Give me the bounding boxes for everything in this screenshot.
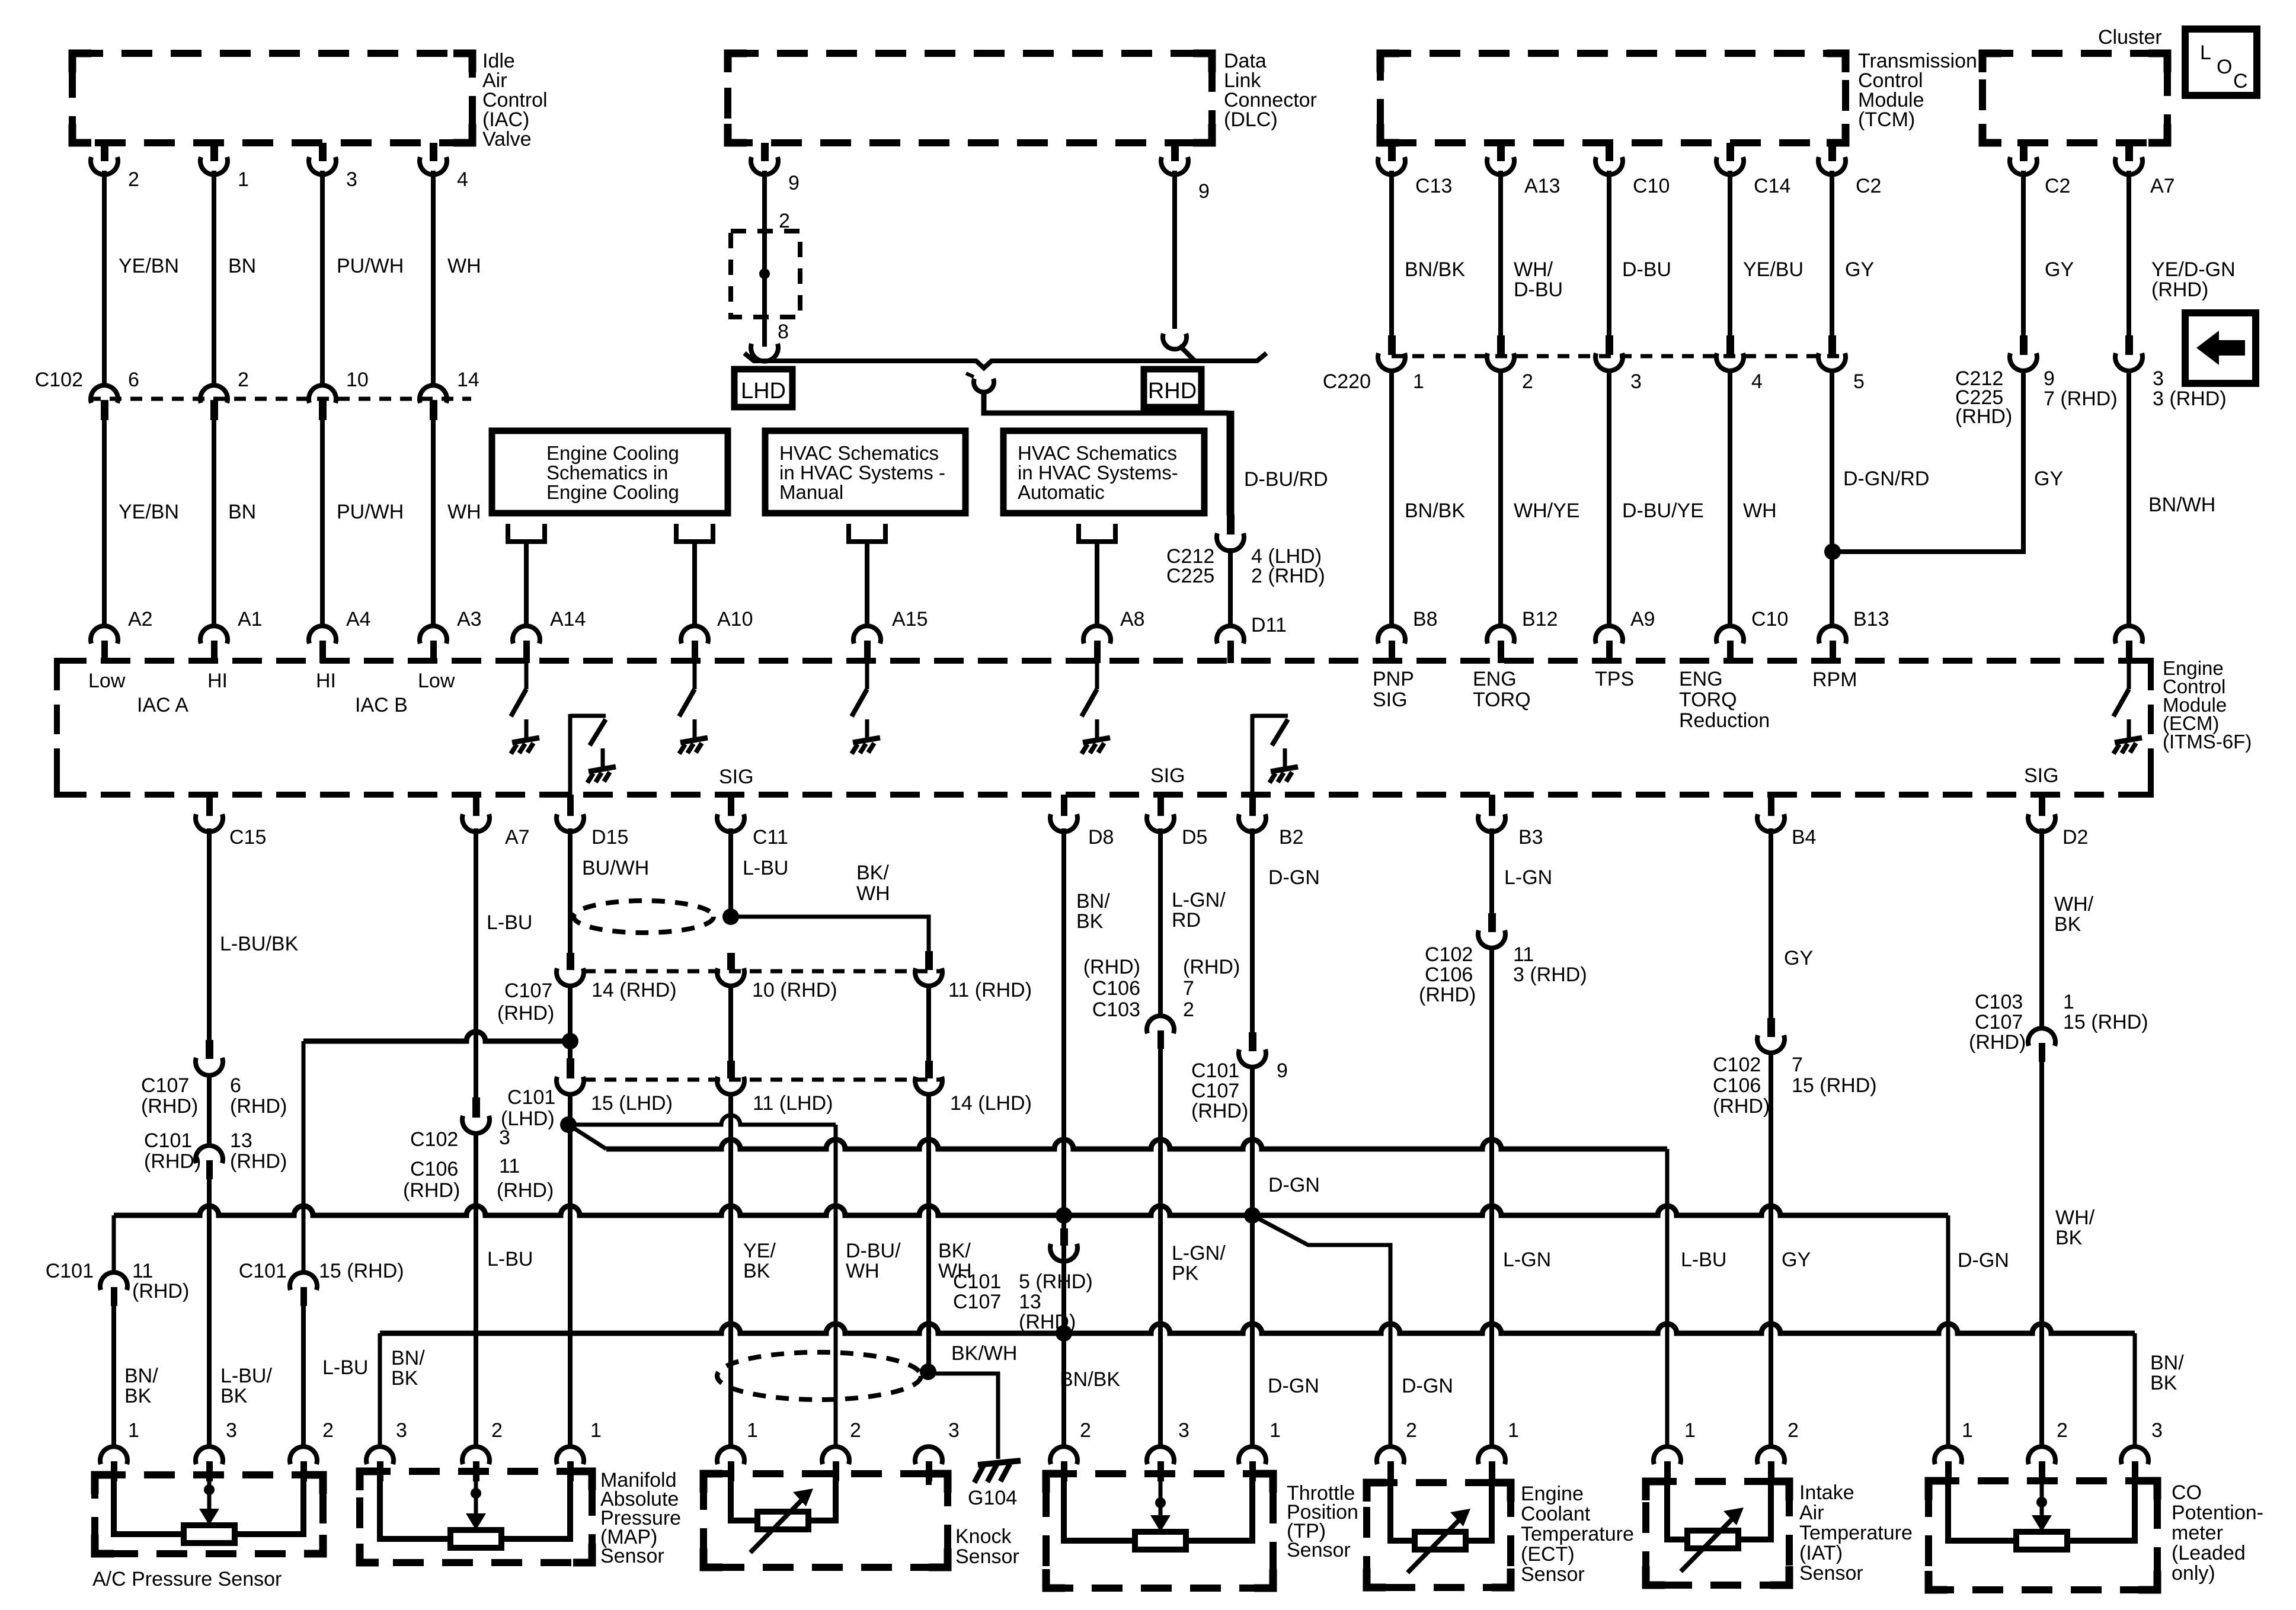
- svg-text:GY: GY: [2034, 468, 2063, 490]
- svg-text:A4: A4: [346, 608, 371, 630]
- svg-text:SIG: SIG: [1373, 689, 1408, 711]
- svg-text:Engine Cooling: Engine Cooling: [546, 481, 679, 503]
- LHD/RHD selection brace: [744, 353, 1267, 368]
- svg-text:L-BU: L-BU: [1681, 1249, 1726, 1271]
- TCM pin C2 connector: [1828, 143, 1836, 161]
- svg-text:(LHD): (LHD): [501, 1108, 555, 1130]
- svg-text:BK: BK: [391, 1367, 418, 1390]
- svg-text:GY: GY: [1845, 258, 1874, 281]
- wire YE/BN C102 to ECM: [102, 419, 107, 627]
- svg-text:YE/D-GN: YE/D-GN: [2151, 258, 2236, 281]
- svg-text:11: 11: [1513, 943, 1534, 966]
- wire D5 L-GN/RD: [1158, 828, 1163, 1017]
- svg-text:A9: A9: [1630, 608, 1655, 630]
- wire D8 to TP pin 2: [1061, 1333, 1066, 1449]
- wire B3 L-GN: [1489, 828, 1494, 913]
- IAC pin 2 connector: [101, 143, 108, 161]
- IAT sensor box: [1646, 1481, 1789, 1585]
- svg-text:A7: A7: [2150, 175, 2175, 197]
- svg-text:(RHD): (RHD): [1419, 984, 1476, 1006]
- DLC pin 9 left connector: [761, 143, 769, 161]
- knock sensor internal wiring: [731, 1474, 757, 1521]
- ECM top pin connector at x=176: [91, 626, 118, 644]
- knock sensor box: [703, 1474, 948, 1567]
- C101-LHD-row connector on D15 wire: [567, 1058, 574, 1078]
- svg-text:3: 3: [396, 1419, 407, 1442]
- connector cup under brace: [974, 379, 994, 392]
- svg-text:1: 1: [590, 1419, 602, 1442]
- svg-text:only): only): [2172, 1562, 2215, 1585]
- svg-text:YE/: YE/: [743, 1240, 776, 1262]
- svg-text:3: 3: [226, 1419, 237, 1442]
- svg-text:G104: G104: [968, 1487, 1017, 1509]
- svg-text:14: 14: [457, 369, 479, 391]
- junction dot D15 line1898: [560, 1116, 577, 1133]
- svg-text:(ITMS-6F): (ITMS-6F): [2163, 731, 2252, 753]
- svg-text:C15: C15: [229, 826, 266, 849]
- svg-text:(ECT): (ECT): [1521, 1543, 1575, 1566]
- connector C212/C225 on D-BU/RD wire: [1227, 514, 1235, 534]
- TP sensor resistor: [1135, 1532, 1186, 1550]
- ECM top pin connector at x=731: [420, 626, 447, 644]
- svg-text:9: 9: [1277, 1060, 1288, 1082]
- svg-text:BN/: BN/: [124, 1365, 158, 1387]
- wire bracket to ECM at x=1172: [692, 542, 697, 627]
- svg-text:Valve: Valve: [482, 128, 532, 151]
- svg-text:9: 9: [2044, 367, 2055, 390]
- svg-text:D-BU/RD: D-BU/RD: [1244, 468, 1328, 491]
- svg-text:C102: C102: [35, 369, 83, 391]
- sensor pin 3 connector at x=1958: [1147, 1446, 1174, 1464]
- A/C sensor resistor: [184, 1525, 235, 1543]
- ECM bottom pin C11 connector: [728, 795, 734, 816]
- svg-text:BN: BN: [228, 501, 256, 523]
- svg-text:BK/WH: BK/WH: [951, 1342, 1017, 1365]
- ECM bottom pin A7 connector: [473, 795, 479, 816]
- svg-text:Reduction: Reduction: [1679, 709, 1770, 732]
- ECM top pin connector at x=2076: [1217, 626, 1244, 644]
- C220 connector pin 4: [1726, 335, 1734, 355]
- wire TCM A13 to C220: [1498, 171, 1503, 335]
- IAC valve box (Idle Air Control): [72, 53, 472, 143]
- switch and ground inside ECM at x=1851: [1095, 663, 1099, 689]
- wire WH IAC pin 4 to C102: [431, 171, 436, 386]
- wire L-BU right vertical to IAT pin 1: [1665, 1149, 1670, 1449]
- svg-text:A7: A7: [505, 826, 530, 849]
- svg-text:7 (RHD): 7 (RHD): [2044, 388, 2118, 410]
- sensor pin 2 connector at x=512: [290, 1446, 317, 1464]
- IAT sensor internal wiring: [1667, 1482, 1687, 1539]
- C107-row connector on BK/WH wire: [925, 951, 933, 970]
- svg-text:BN/WH: BN/WH: [2148, 494, 2215, 516]
- svg-text:C106: C106: [1425, 964, 1473, 986]
- C101/C107 connector on D8 wire: [1060, 1228, 1068, 1246]
- switch and ground inside ECM at x=3592: [2127, 663, 2131, 689]
- svg-text:Engine Cooling: Engine Cooling: [546, 442, 679, 464]
- wire cluster C2 GY join: [1833, 369, 2023, 552]
- wire B2 to LINE2: [1250, 1065, 1255, 1215]
- svg-text:L-GN: L-GN: [1503, 1249, 1551, 1271]
- svg-text:(RHD): (RHD): [1191, 1100, 1248, 1122]
- svg-text:D-BU: D-BU: [1514, 279, 1563, 301]
- ECM top pin connector at x=1172: [681, 626, 708, 644]
- svg-text:4: 4: [1751, 370, 1763, 393]
- svg-text:2: 2: [850, 1419, 861, 1442]
- wire PU/WH IAC pin 3 to C102: [320, 171, 325, 386]
- svg-text:B2: B2: [1279, 826, 1304, 849]
- svg-text:WH/: WH/: [2055, 1206, 2095, 1229]
- MAP sensor internal wiring: [380, 1472, 450, 1539]
- LINE3 horizontal bus: [380, 1324, 2135, 1333]
- svg-text:(RHD): (RHD): [1183, 956, 1240, 978]
- svg-text:PNP: PNP: [1373, 668, 1414, 690]
- wire WH C102 to ECM: [431, 419, 436, 627]
- wire bracket to ECM at x=1463: [865, 542, 869, 627]
- wire knock pin 2 vertical D-BU/WH: [834, 1125, 838, 1449]
- svg-text:C103: C103: [1092, 998, 1140, 1021]
- svg-text:Engine: Engine: [1521, 1483, 1584, 1505]
- svg-text:BN/BK: BN/BK: [1405, 258, 1465, 281]
- svg-text:BN/: BN/: [391, 1347, 425, 1369]
- svg-text:RD: RD: [1172, 909, 1201, 932]
- svg-text:1: 1: [1508, 1419, 1519, 1442]
- svg-text:C107: C107: [141, 1074, 189, 1097]
- CO resistor: [2016, 1532, 2067, 1550]
- CO tap arrow: [2040, 1481, 2044, 1502]
- svg-text:BK: BK: [2150, 1372, 2177, 1394]
- wire x512 to A/C pin 2: [301, 1305, 306, 1449]
- C102 pin 10 connector: [309, 385, 336, 403]
- svg-text:GY: GY: [1784, 947, 1813, 969]
- svg-text:1: 1: [2063, 991, 2074, 1013]
- svg-text:D-BU/YE: D-BU/YE: [1622, 500, 1704, 522]
- C212 connector under cluster A7: [2125, 335, 2133, 355]
- wire LINE2 left drop: [112, 1215, 116, 1275]
- C107-row connector on C11 wire: [727, 953, 735, 970]
- svg-text:SIG: SIG: [2024, 764, 2059, 787]
- svg-text:5 (RHD): 5 (RHD): [1019, 1270, 1093, 1293]
- C102/C106 connector on B4 wire: [1767, 1018, 1775, 1037]
- wire B2 to TP pin 1: [1250, 1215, 1255, 1449]
- svg-text:6: 6: [128, 369, 139, 391]
- switch and ground inside ECM at x=1463: [865, 663, 869, 689]
- svg-text:TPS: TPS: [1595, 668, 1634, 690]
- sensor pin 2 connector at x=3445: [2028, 1446, 2055, 1464]
- svg-text:GY: GY: [1782, 1249, 1811, 1271]
- svg-text:C101: C101: [46, 1260, 94, 1282]
- C101/C107 connector on B2 wire: [1249, 1032, 1256, 1051]
- HVAC manual box: [765, 431, 965, 513]
- connector row C102 dashed line: [89, 397, 471, 401]
- C102 connector on A7 wire: [472, 1097, 480, 1118]
- svg-text:(RHD): (RHD): [403, 1179, 460, 1202]
- C102/C106 connector on B3 wire: [1488, 913, 1496, 932]
- svg-text:BN/BK: BN/BK: [1405, 500, 1465, 522]
- wire BN C102 to ECM: [212, 419, 216, 627]
- svg-text:2: 2: [2057, 1419, 2068, 1442]
- svg-text:WH: WH: [1743, 500, 1777, 522]
- svg-text:Low: Low: [418, 670, 455, 692]
- ECM top pin connector at x=361: [200, 626, 228, 644]
- C101-LHD-row connector on C11 wire: [727, 1061, 735, 1078]
- svg-text:(RHD): (RHD): [141, 1095, 198, 1118]
- svg-text:9: 9: [1198, 180, 1210, 203]
- wire A7 to MAP pin 2: [474, 1132, 478, 1449]
- svg-text:LHD: LHD: [741, 379, 786, 404]
- ECM top pin connector at x=3092: [1819, 626, 1846, 644]
- svg-text:B12: B12: [1522, 608, 1558, 630]
- sensor pin 2 connector at x=1795: [1050, 1446, 1077, 1464]
- svg-text:C: C: [2233, 70, 2248, 92]
- C106/C103 connector on D5 wire: [1147, 1016, 1174, 1033]
- C102 pin 14 connector: [420, 385, 447, 403]
- RHD connector row dashed line: [584, 969, 944, 974]
- svg-text:Cluster: Cluster: [2098, 26, 2162, 49]
- DLC box (Data Link Connector): [728, 53, 1212, 143]
- svg-text:2: 2: [491, 1419, 503, 1442]
- svg-text:YE/BN: YE/BN: [119, 255, 179, 277]
- svg-text:IAC B: IAC B: [355, 694, 408, 716]
- svg-text:L-BU: L-BU: [487, 911, 532, 934]
- svg-text:WH: WH: [447, 255, 481, 277]
- wire C220 to ECM B8: [1389, 369, 1394, 627]
- junction dot B2/LINE2: [1244, 1207, 1261, 1224]
- svg-text:6: 6: [230, 1074, 241, 1097]
- sensor pin 1 connector at x=2113: [1239, 1446, 1266, 1464]
- svg-text:HVAC Schematics: HVAC Schematics: [1018, 442, 1177, 464]
- svg-text:14 (RHD): 14 (RHD): [591, 979, 677, 1001]
- wire C15 to A/C pin 3: [207, 1178, 212, 1449]
- svg-text:PU/WH: PU/WH: [337, 255, 404, 277]
- C212 connector under cluster C2: [2020, 335, 2028, 355]
- svg-text:BK/: BK/: [856, 862, 889, 884]
- svg-text:CO: CO: [2172, 1481, 2202, 1504]
- svg-text:WH: WH: [856, 882, 890, 905]
- svg-text:Sensor: Sensor: [1521, 1563, 1585, 1586]
- wire C15 L-BU/BK: [207, 828, 212, 1041]
- svg-text:C2: C2: [2045, 175, 2070, 197]
- IAT sensor variable arrow: [1681, 1512, 1739, 1571]
- TCM pin C10 connector: [1606, 143, 1613, 161]
- line1898 horizontal: [568, 1115, 836, 1125]
- svg-text:PU/WH: PU/WH: [337, 501, 404, 523]
- svg-text:SIG: SIG: [719, 766, 754, 788]
- wire PU/WH C102 to ECM: [320, 419, 325, 627]
- svg-text:D11: D11: [1251, 614, 1287, 636]
- svg-text:(RHD): (RHD): [132, 1280, 189, 1302]
- wire TCM C2 to C220: [1830, 171, 1834, 335]
- svg-text:Temperature: Temperature: [1521, 1523, 1634, 1545]
- TCM pin C14 connector: [1726, 143, 1734, 161]
- svg-text:WH: WH: [447, 501, 481, 523]
- wire C11 mid: [728, 984, 733, 1061]
- ECT sensor internal wiring: [1390, 1483, 1415, 1541]
- svg-text:C101: C101: [953, 1270, 1001, 1293]
- svg-text:Temperature: Temperature: [1799, 1522, 1913, 1544]
- svg-text:(RHD): (RHD): [1083, 956, 1140, 978]
- elbow switch ground for D15: [568, 714, 573, 795]
- ECM top pin connector at x=544: [309, 626, 336, 644]
- C101 inline connector on C15 wire: [196, 1145, 223, 1163]
- svg-text:C101: C101: [1191, 1060, 1239, 1082]
- bracket stub under box at x=1172: [676, 524, 713, 542]
- svg-text:ENG: ENG: [1679, 668, 1723, 690]
- junction dot D8/LINE3: [1056, 1325, 1072, 1342]
- sensor pin 1 connector at x=192: [100, 1446, 127, 1464]
- svg-text:13: 13: [1019, 1291, 1041, 1313]
- svg-text:C102: C102: [1713, 1054, 1761, 1076]
- svg-text:C225: C225: [1166, 565, 1214, 587]
- svg-text:2: 2: [322, 1419, 334, 1442]
- svg-text:1: 1: [1962, 1419, 1973, 1442]
- wire BK/WH mid: [926, 984, 931, 1061]
- svg-text:BK: BK: [2054, 913, 2081, 936]
- ECM bottom pin B2 connector: [1249, 795, 1256, 816]
- svg-text:3: 3: [948, 1419, 960, 1442]
- Cluster pin A7 connector: [2125, 143, 2133, 161]
- svg-text:2: 2: [1522, 370, 1533, 393]
- sensor pin 1 connector at x=3287: [1934, 1446, 1962, 1464]
- wire B4 to IAT pin 2: [1769, 1051, 1773, 1449]
- wire x192 to A/C pin 1: [111, 1305, 116, 1449]
- wire LINE2 right drop to CO pin 1: [1946, 1215, 1950, 1449]
- svg-text:Automatic: Automatic: [1018, 481, 1105, 503]
- sensor pin 1 connector at x=2517: [1478, 1446, 1505, 1464]
- wire C220 to ECM B13: [1830, 369, 1834, 627]
- svg-text:3: 3: [2153, 367, 2164, 390]
- svg-text:2: 2: [1080, 1419, 1091, 1442]
- ECM corner brackets: [57, 661, 75, 678]
- svg-text:IAC A: IAC A: [137, 694, 188, 716]
- svg-text:Schematics in: Schematics in: [546, 462, 668, 484]
- wire BK/WH branch horizontal: [731, 917, 929, 951]
- in-line dashed box on DLC wire: [731, 231, 800, 317]
- connector cup end right: [1163, 334, 1187, 349]
- ECM top pin connector at x=2532: [1487, 626, 1514, 644]
- LINE0 horizontal bus: [303, 1032, 570, 1041]
- LHD box: [734, 369, 792, 407]
- sensor pin 2 connector at x=2346: [1377, 1446, 1404, 1464]
- svg-text:L-BU/BK: L-BU/BK: [220, 933, 299, 955]
- C107 inline connector on C15 wire: [206, 1040, 213, 1059]
- bracket stub under box at x=1851: [1079, 524, 1115, 542]
- wire C220 to ECM C10: [1728, 369, 1732, 627]
- ECM bottom pin D2 connector: [2039, 795, 2045, 816]
- bracket stub under box at x=1463: [849, 524, 885, 542]
- svg-text:(RHD): (RHD): [497, 1179, 554, 1202]
- svg-text:A1: A1: [238, 608, 263, 630]
- svg-text:D-GN: D-GN: [1402, 1375, 1453, 1397]
- LINE2 horizontal bus: [114, 1206, 1948, 1215]
- ECM top pin connector at x=2919: [1716, 626, 1744, 644]
- ECM bottom pin B4 connector: [1768, 795, 1774, 816]
- elbow switch ground for B2: [1251, 714, 1255, 795]
- C107-row connector on D15 wire: [567, 953, 574, 970]
- wire TCM C13 to C220: [1389, 171, 1394, 335]
- TP sensor box: [1046, 1474, 1273, 1588]
- svg-text:B13: B13: [1853, 608, 1889, 630]
- svg-text:D8: D8: [1088, 826, 1114, 849]
- svg-text:BN/: BN/: [1076, 890, 1110, 913]
- wire D15 mid: [568, 984, 573, 1058]
- svg-text:3 (RHD): 3 (RHD): [1513, 964, 1587, 986]
- svg-text:10: 10: [346, 369, 369, 391]
- wire DLC pin 9 down: [762, 171, 767, 347]
- svg-text:Intake: Intake: [1799, 1481, 1854, 1504]
- switch and ground inside ECM at x=888: [525, 663, 529, 689]
- ECM bottom border: [57, 792, 2151, 798]
- svg-text:C107: C107: [504, 980, 552, 1002]
- junction dot BK/WH G104 tap: [920, 1363, 936, 1380]
- ECM bottom pin D8 connector: [1061, 795, 1067, 816]
- LOC box: [2185, 29, 2257, 95]
- A/C sensor tap arrow: [207, 1475, 212, 1490]
- svg-text:TORQ: TORQ: [1679, 689, 1737, 711]
- CO internal wiring: [1948, 1481, 2016, 1541]
- svg-text:BK: BK: [2055, 1227, 2083, 1249]
- svg-text:HVAC Schematics: HVAC Schematics: [779, 442, 939, 464]
- junction dot B13/cluster GY: [1824, 543, 1841, 560]
- wire to G104 ground: [928, 1374, 998, 1459]
- Cluster box: [1982, 53, 2167, 143]
- svg-text:C101: C101: [144, 1129, 192, 1152]
- svg-text:15 (RHD): 15 (RHD): [1792, 1074, 1877, 1097]
- sensor pin 3 connector at x=3602: [2121, 1446, 2148, 1464]
- sensor pin 2 connector at x=803: [462, 1446, 490, 1464]
- svg-text:BN/BK: BN/BK: [1060, 1368, 1120, 1391]
- ECM top pin connector at x=2715: [1595, 626, 1623, 644]
- svg-text:(IAT): (IAT): [1799, 1542, 1843, 1564]
- bracket stub under box at x=888: [508, 524, 545, 542]
- ECT sensor resistor: [1415, 1532, 1466, 1550]
- svg-text:C107: C107: [1975, 1011, 2023, 1033]
- ECM top border: [57, 658, 2150, 664]
- svg-text:A10: A10: [717, 608, 753, 630]
- svg-text:(RHD): (RHD): [230, 1095, 287, 1118]
- svg-text:HI: HI: [207, 670, 228, 692]
- svg-text:3: 3: [2151, 1419, 2163, 1442]
- svg-text:TORQ: TORQ: [1473, 689, 1531, 711]
- svg-text:Coolant: Coolant: [1521, 1503, 1591, 1525]
- RHD box: [1144, 369, 1201, 407]
- ECM bottom pin C15 connector: [206, 795, 213, 816]
- svg-text:C106: C106: [1713, 1074, 1761, 1097]
- wire D5 to TP pin 3: [1158, 1048, 1163, 1449]
- svg-text:13: 13: [230, 1129, 252, 1152]
- svg-text:15 (RHD): 15 (RHD): [319, 1260, 404, 1282]
- ECM top pin connector at x=3592: [2115, 626, 2142, 644]
- wire B2 D-GN: [1250, 828, 1255, 1032]
- junction dot C11 BK/WH tap: [722, 908, 739, 925]
- svg-text:11: 11: [132, 1260, 153, 1282]
- C101 connector on x192 wire: [100, 1272, 127, 1290]
- wire C11 L-BU: [728, 828, 733, 917]
- ECM top pin connector at x=888: [513, 626, 540, 644]
- svg-text:L-BU: L-BU: [322, 1356, 368, 1379]
- sensor pin 3 connector at x=353: [196, 1446, 223, 1464]
- knock sensor variable arrow: [750, 1493, 808, 1553]
- svg-text:WH/: WH/: [2054, 893, 2094, 916]
- svg-text:15 (LHD): 15 (LHD): [591, 1092, 673, 1115]
- svg-text:1: 1: [128, 1419, 139, 1442]
- svg-text:C2: C2: [1856, 175, 1881, 197]
- sensor pin 2 connector at x=2988: [1757, 1446, 1785, 1464]
- svg-text:Air: Air: [1799, 1502, 1824, 1524]
- wire D2 to CO pin 2: [2039, 1061, 2044, 1449]
- svg-text:Manual: Manual: [779, 481, 843, 503]
- svg-text:(Leaded: (Leaded: [2172, 1542, 2246, 1564]
- svg-text:D-GN: D-GN: [1268, 866, 1320, 889]
